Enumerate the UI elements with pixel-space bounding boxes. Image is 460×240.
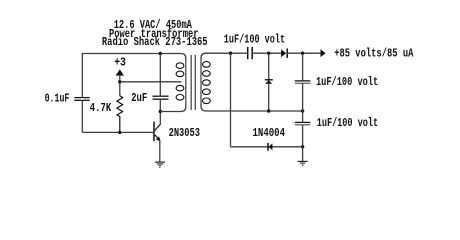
capacitor C3 series 1uF plates <box>248 47 253 59</box>
power symbol +3 arrow <box>116 69 124 75</box>
svg-text:2N3053: 2N3053 <box>169 127 200 140</box>
capacitor C5 1uF plates <box>295 122 311 124</box>
wire: D2 branch vertical lower <box>268 84 270 111</box>
transformer T1 secondary bottom corner <box>201 104 209 111</box>
node: bottom rail / D2 junction <box>267 109 270 112</box>
svg-text:1uF/100 volt: 1uF/100 volt <box>224 33 285 46</box>
transistor Q1 2N3053 <box>154 122 161 142</box>
wire: bottom return rail <box>231 146 303 148</box>
wire: +3 feed vertical <box>119 75 121 96</box>
resistor R1 4.7K zigzag <box>117 96 123 133</box>
diode D1 rectifier triangle <box>281 49 286 57</box>
node: center-tap feed junction <box>118 80 121 83</box>
output arrowhead <box>321 49 326 57</box>
node: bottom rail / filter junction <box>301 109 304 112</box>
gap mask for C2 <box>159 97 162 99</box>
svg-text:4.7K: 4.7K <box>90 102 111 115</box>
svg-text:+3: +3 <box>114 56 126 69</box>
wire: filter branch vertical middle <box>302 83 304 122</box>
wire: top-left rail <box>82 54 181 133</box>
ground: output filter ground symbol <box>298 161 308 165</box>
svg-text:1uF/100 volt: 1uF/100 volt <box>317 117 379 130</box>
diode D2 triangle (pointing up) <box>265 80 272 83</box>
diode D2 cathode bar <box>265 79 273 81</box>
transformer T1 primary stem <box>185 62 187 104</box>
svg-text:1N4004: 1N4004 <box>253 127 286 140</box>
wire: top rail D1 to output <box>287 52 321 54</box>
capacitor C1 0.1uF plates <box>74 98 89 101</box>
transformer T1 secondary stem <box>200 61 202 104</box>
wire: filter branch vertical upper <box>302 53 304 80</box>
wire: 2uF branch vertical lower to collector node <box>159 99 161 124</box>
node: top rail / 2uF branch junction <box>159 52 162 55</box>
transformer T1 core lines <box>191 55 195 110</box>
svg-text:0.1uF: 0.1uF <box>45 92 70 105</box>
wire: filter branch vertical lower <box>302 125 304 161</box>
node: bottom return rail junction <box>301 145 304 148</box>
transformer T1 secondary top corner <box>201 53 209 61</box>
svg-text:Radio Shack 273-1365: Radio Shack 273-1365 <box>102 36 208 49</box>
wire: D2 branch vertical upper <box>268 53 270 79</box>
node: base rail / R1 junction <box>118 131 121 134</box>
svg-text:1uF/100 volt: 1uF/100 volt <box>316 76 378 89</box>
diode D3 1N4004 triangle (pointing left) <box>269 143 273 150</box>
wire: secondary top rail <box>209 52 247 54</box>
wire: center-tap feed to primary <box>120 81 182 83</box>
ground: emitter ground symbol <box>155 162 165 167</box>
wire: doubler branch vertical (x=230.5) <box>230 53 232 147</box>
svg-text:2uF: 2uF <box>131 92 147 105</box>
Q1 emitter lead <box>155 135 160 141</box>
transformer T1 secondary winding loops <box>203 62 211 104</box>
transformer T1 primary top corner <box>181 54 186 63</box>
node: top rail junction at bottom-loop branch <box>229 52 232 55</box>
wire: top rail C3 to D1 <box>252 52 281 54</box>
node: D2 branch junction <box>267 52 270 55</box>
wire: 2uF branch vertical upper <box>159 54 161 97</box>
diode D3 1N4004 cathode bar <box>267 143 269 151</box>
capacitor C2 2uF plates <box>153 96 169 99</box>
wire: primary bottom rail <box>160 104 186 112</box>
wire: emitter to ground <box>159 141 161 162</box>
gap mask for C1 <box>81 98 84 100</box>
transformer T1 primary winding loops <box>176 63 184 100</box>
Q1 collector lead <box>155 124 161 130</box>
diode D1 cathode bar <box>286 48 288 58</box>
node: output filter branch junction <box>301 52 304 55</box>
svg-text:+85 volts/85 uA: +85 volts/85 uA <box>334 48 413 61</box>
wire: base rail <box>82 131 153 133</box>
wire: secondary bottom rail <box>209 110 303 112</box>
node: collector junction <box>159 110 162 113</box>
Q1 emitter arrowhead <box>156 136 161 141</box>
Q1 base bar <box>153 122 155 142</box>
capacitor C4 1uF plates <box>295 81 311 83</box>
